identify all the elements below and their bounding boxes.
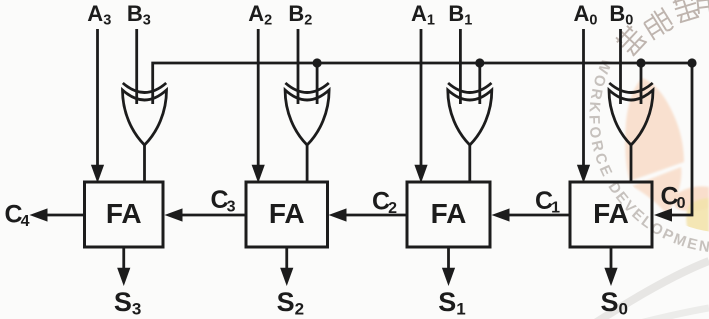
svg-text:C3: C3 xyxy=(211,186,236,216)
svg-text:A3: A3 xyxy=(87,1,111,28)
svg-text:B0: B0 xyxy=(609,1,633,28)
svg-text:FA: FA xyxy=(431,198,467,229)
svg-text:FA: FA xyxy=(593,198,629,229)
svg-text:S2: S2 xyxy=(277,287,304,319)
svg-text:S3: S3 xyxy=(114,287,141,319)
svg-text:C0: C0 xyxy=(661,183,686,213)
svg-text:S1: S1 xyxy=(438,287,465,319)
svg-text:A1: A1 xyxy=(411,1,435,28)
svg-text:B2: B2 xyxy=(288,1,312,28)
svg-text:FA: FA xyxy=(106,198,142,229)
svg-text:B1: B1 xyxy=(448,1,472,28)
svg-text:C1: C1 xyxy=(535,187,560,217)
svg-text:C4: C4 xyxy=(5,201,30,231)
svg-text:B3: B3 xyxy=(127,1,151,28)
svg-text:FA: FA xyxy=(269,198,305,229)
svg-text:A0: A0 xyxy=(574,1,598,28)
svg-text:C2: C2 xyxy=(372,188,397,218)
svg-text:S0: S0 xyxy=(601,287,628,319)
svg-text:A2: A2 xyxy=(248,1,272,28)
